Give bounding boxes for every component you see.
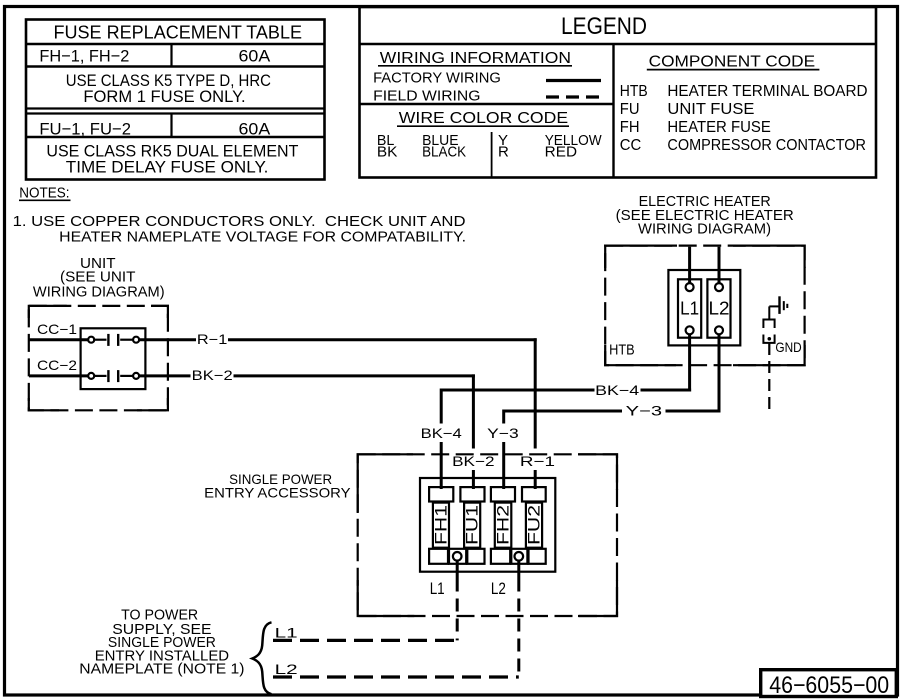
L1 field wire vertical [456, 579, 459, 641]
svg-text:HEATER TERMINAL BOARD: HEATER TERMINAL BOARD [667, 83, 867, 100]
svg-text:L1: L1 [680, 299, 699, 319]
L2 supply field wire [273, 675, 519, 678]
factory wiring sample line [546, 79, 601, 82]
svg-text:COMPONENT CODE: COMPONENT CODE [649, 53, 815, 70]
svg-text:BK: BK [377, 144, 398, 161]
GND field wire dashed [768, 343, 770, 413]
terminal cell with circle L1 [449, 549, 466, 564]
svg-text:UNIT FUSE: UNIT FUSE [667, 101, 754, 118]
contact CC-2 [29, 370, 139, 382]
svg-text:WIRING INFORMATION: WIRING INFORMATION [380, 50, 571, 67]
Y-3 label left [483, 424, 524, 441]
svg-text:BLACK: BLACK [422, 144, 466, 161]
svg-text:FH1: FH1 [432, 505, 451, 545]
fuse FU1 [460, 487, 484, 564]
terminal L2 block [707, 279, 730, 337]
svg-text:WIRE COLOR CODE: WIRE COLOR CODE [399, 110, 568, 127]
svg-text:HEATER NAMEPLATE VOLTAGE FOR C: HEATER NAMEPLATE VOLTAGE FOR COMPATABILI… [59, 229, 466, 246]
contact CC-1 [29, 334, 139, 346]
svg-text:GND: GND [775, 339, 801, 355]
svg-text:Y−3: Y−3 [487, 425, 519, 441]
svg-text:BK−4: BK−4 [595, 382, 639, 398]
fuse FH2 [491, 487, 515, 564]
ground symbol [763, 296, 801, 412]
terminal circles [686, 283, 694, 291]
svg-text:L1: L1 [275, 625, 298, 641]
svg-text:HEATER FUSE: HEATER FUSE [667, 119, 770, 136]
svg-text:CC−2: CC−2 [37, 357, 77, 373]
fuse FH1 [429, 487, 453, 564]
svg-text:R: R [498, 144, 509, 161]
svg-text:FH: FH [620, 119, 640, 136]
wire BK-2 horizontal [140, 374, 191, 377]
svg-text:FU−1, FU−2: FU−1, FU−2 [39, 120, 131, 139]
L2 stub below fuse block [517, 561, 520, 579]
svg-text:L2: L2 [709, 299, 730, 319]
L2 field wire vertical [517, 579, 520, 678]
svg-text:Y−3: Y−3 [626, 402, 663, 418]
svg-text:60A: 60A [239, 120, 271, 139]
part number box [761, 670, 897, 699]
accessory dashed box [358, 454, 617, 616]
svg-text:NAMEPLATE (NOTE 1): NAMEPLATE (NOTE 1) [79, 660, 244, 677]
wire Y-3 from HTB L2 [483, 334, 721, 489]
fuse block box [420, 478, 555, 572]
R-1 label lower [515, 450, 559, 469]
svg-text:BK−4: BK−4 [421, 425, 462, 441]
svg-text:60A: 60A [239, 46, 271, 65]
svg-text:LEGEND: LEGEND [561, 13, 647, 40]
wire into L2 from top [718, 247, 721, 283]
to power supply note [79, 607, 244, 678]
brace [252, 622, 271, 694]
BK-4 label left [417, 424, 465, 441]
wire BK-4 from HTB L1 [417, 334, 691, 489]
fuse replacement table box [26, 20, 325, 180]
svg-text:FH−1, FH−2: FH−1, FH−2 [39, 46, 129, 65]
svg-text:L2: L2 [491, 579, 506, 598]
svg-text:46−6055−00: 46−6055−00 [769, 672, 889, 699]
svg-text:ENTRY ACCESSORY: ENTRY ACCESSORY [204, 484, 351, 500]
svg-text:CC−1: CC−1 [37, 321, 77, 337]
notes text [13, 185, 466, 246]
wire BK-2 vertical [472, 374, 475, 448]
heater dashed box HTB [605, 246, 804, 366]
svg-text:FACTORY WIRING: FACTORY WIRING [373, 69, 501, 86]
svg-text:FU2: FU2 [525, 505, 544, 545]
single power entry accessory label [204, 471, 351, 500]
field wiring sample dashed line [546, 95, 605, 98]
svg-text:RED: RED [545, 144, 577, 161]
legend box [360, 7, 877, 178]
wire R-1 vertical [534, 338, 537, 448]
svg-text:COMPRESSOR CONTACTOR: COMPRESSOR CONTACTOR [667, 137, 866, 154]
svg-text:BK−2: BK−2 [192, 367, 233, 383]
svg-text:TIME DELAY FUSE ONLY.: TIME DELAY FUSE ONLY. [66, 158, 269, 177]
wire R-1 horizontal [140, 338, 197, 341]
svg-text:HTB: HTB [620, 83, 648, 100]
svg-text:FIELD WIRING: FIELD WIRING [373, 88, 480, 105]
unit label [33, 255, 165, 301]
L1 supply field wire [273, 639, 457, 642]
electric heater label [616, 193, 794, 237]
BK-2 label lower [448, 450, 498, 469]
svg-text:L1: L1 [430, 579, 445, 598]
fuse FU2 [522, 487, 546, 564]
svg-text:FORM 1 FUSE ONLY.: FORM 1 FUSE ONLY. [83, 87, 245, 106]
L1 stub below fuse block [456, 561, 459, 579]
terminal cell with circle L2 [511, 549, 527, 564]
unit dashed box [29, 306, 168, 410]
svg-text:R−1: R−1 [197, 331, 228, 347]
svg-text:WIRING DIAGRAM): WIRING DIAGRAM) [33, 284, 165, 301]
contactor box [81, 328, 146, 389]
svg-text:WIRING DIAGRAM): WIRING DIAGRAM) [638, 220, 771, 237]
terminal L1 block [678, 279, 701, 337]
svg-text:1. USE COPPER CONDUCTORS ONLY.: 1. USE COPPER CONDUCTORS ONLY. CHECK UNI… [13, 213, 466, 230]
svg-text:L2: L2 [275, 661, 298, 677]
svg-text:HTB: HTB [609, 341, 635, 358]
svg-text:FU: FU [620, 101, 640, 118]
wire into L1 from top [688, 247, 691, 283]
svg-text:FUSE REPLACEMENT TABLE: FUSE REPLACEMENT TABLE [54, 22, 303, 42]
svg-text:FH2: FH2 [494, 505, 513, 545]
svg-text:CC: CC [620, 137, 642, 154]
svg-text:FU1: FU1 [463, 505, 482, 545]
svg-text:NOTES:: NOTES: [19, 185, 69, 202]
heater terminal board box [668, 270, 740, 345]
